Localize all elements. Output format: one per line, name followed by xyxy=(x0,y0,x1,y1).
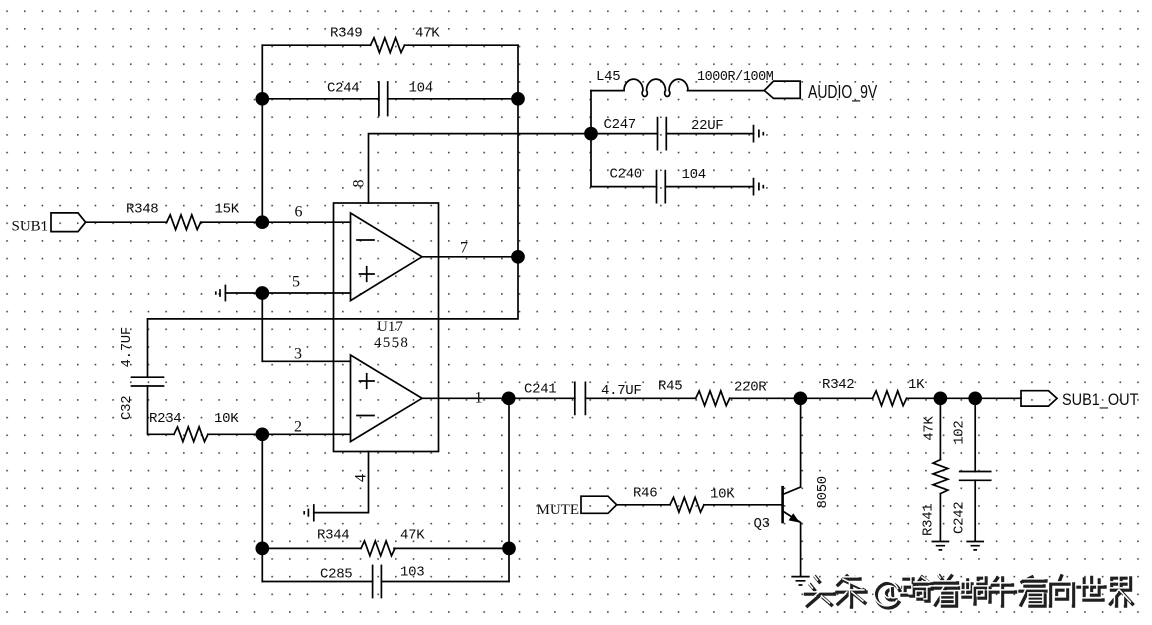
wire: pin7 output xyxy=(422,256,518,258)
wire: collector node to R342 xyxy=(800,397,872,399)
wire: C241 to R45 xyxy=(585,397,695,399)
wire: R234 to pin2 node xyxy=(208,433,262,435)
resistor R349 xyxy=(371,38,405,53)
wire: MUTE to R46 xyxy=(617,504,670,506)
svg-text:4558: 4558 xyxy=(374,335,409,351)
port MUTE xyxy=(581,496,617,513)
wire: branch vertical for L45/C247/C240 xyxy=(590,91,592,187)
node: junction C244 left xyxy=(256,93,268,105)
svg-text:Q3: Q3 xyxy=(754,516,770,532)
wire: pin1 output xyxy=(422,397,509,399)
svg-text:C285: C285 xyxy=(320,567,352,583)
node: pin2 junction xyxy=(256,428,268,440)
wire: to L45 xyxy=(591,90,624,92)
svg-text:103: 103 xyxy=(400,565,424,581)
svg-text:8050: 8050 xyxy=(815,476,831,508)
svg-text:47K: 47K xyxy=(921,416,937,441)
node: pin1 junction xyxy=(503,392,515,404)
node: C242 top junction xyxy=(969,392,981,404)
svg-text:C32: C32 xyxy=(119,396,135,420)
op-amp U17 triangle B (bottom) xyxy=(351,355,423,442)
wire: SUB1 to R348 xyxy=(86,221,167,223)
svg-text:C241: C241 xyxy=(524,382,556,398)
ground: R341 down-pointing xyxy=(932,542,948,550)
svg-text:R348: R348 xyxy=(126,202,158,218)
svg-text:102: 102 xyxy=(951,420,967,444)
wire: pin5 to pin3 vertical xyxy=(261,293,263,361)
wire: pin6 into op-amp xyxy=(262,221,350,223)
svg-text:1000R/100M: 1000R/100M xyxy=(697,70,774,85)
port SUB1_OUT xyxy=(1021,391,1057,406)
svg-text:104: 104 xyxy=(409,81,433,97)
wire: C242 bottom xyxy=(974,480,976,541)
wire: pin1 to C241 xyxy=(509,397,575,399)
wire: C242 top xyxy=(974,398,976,471)
op-amp A plus mark xyxy=(360,267,375,282)
svg-text:47K: 47K xyxy=(415,26,440,42)
watermark text white highlight layer xyxy=(803,574,1130,606)
capacitor C32 xyxy=(132,377,164,386)
node: R344 right junction xyxy=(503,542,515,554)
svg-text:R341: R341 xyxy=(920,504,936,536)
svg-text:R344: R344 xyxy=(317,528,349,544)
svg-text:R46: R46 xyxy=(633,486,657,502)
capacitor C242 xyxy=(960,472,991,481)
svg-text:1: 1 xyxy=(475,390,483,407)
svg-text:SUB1: SUB1 xyxy=(12,219,49,235)
wire: pin7 feedback down and left to C32 xyxy=(148,257,519,377)
svg-text:104: 104 xyxy=(682,167,706,183)
resistor R234 xyxy=(174,427,208,442)
ground: C247 right-pointing xyxy=(754,126,764,142)
svg-text:R349: R349 xyxy=(330,26,362,42)
transistor Q3 emitter xyxy=(783,511,801,576)
svg-text:5: 5 xyxy=(292,274,300,291)
wire: C32 down to R234 xyxy=(148,386,175,434)
ground: pin4 left-pointing xyxy=(304,505,314,521)
node: junction C244 right xyxy=(512,93,524,105)
node: R344 left junction xyxy=(256,542,268,554)
capacitor C285 xyxy=(373,566,382,598)
svg-text:10K: 10K xyxy=(214,411,239,427)
svg-text:10K: 10K xyxy=(710,487,735,503)
op-amp U17 box xyxy=(334,203,439,452)
transistor Q3 collector xyxy=(783,398,801,494)
resistor R341 (vertical) xyxy=(933,460,948,494)
capacitor C241 xyxy=(575,382,586,414)
wire: C247 row xyxy=(591,133,754,135)
svg-text:SUB1_OUT: SUB1_OUT xyxy=(1062,391,1139,409)
transistor Q3 base bar xyxy=(781,487,784,522)
svg-text:15K: 15K xyxy=(215,202,240,218)
wire: R344 row xyxy=(262,547,509,549)
wire: pin2 into op-amp xyxy=(262,433,350,435)
resistor R46 xyxy=(670,497,704,512)
wire: feedback top horizontal xyxy=(262,44,518,46)
wire: R342 to output nodes xyxy=(907,397,1021,399)
svg-text:C240: C240 xyxy=(610,167,642,183)
resistor R344 xyxy=(361,541,395,556)
svg-text:22UF: 22UF xyxy=(691,118,723,134)
wire: R348 to pin6 node xyxy=(201,221,263,223)
wire: C240 row xyxy=(591,186,754,188)
port AUDIO_9V xyxy=(764,81,800,98)
svg-text:2: 2 xyxy=(294,419,302,436)
node: junction at C247 branch xyxy=(585,128,597,140)
node: pin7 junction xyxy=(512,251,524,263)
op-amp B plus mark xyxy=(360,374,375,389)
svg-text:MUTE: MUTE xyxy=(537,502,580,518)
op-amp A minus mark xyxy=(357,239,374,241)
port SUB1 xyxy=(51,213,86,232)
svg-text:C247: C247 xyxy=(604,117,636,133)
wire: output rail right vertical xyxy=(517,45,519,257)
resistor R348 xyxy=(167,215,201,230)
resistor R45 xyxy=(696,391,730,406)
op-amp U17 triangle A (top) xyxy=(351,213,423,301)
op-amp B minus mark xyxy=(357,415,374,417)
wire: R341 top xyxy=(939,398,941,459)
capacitor C244 xyxy=(379,82,388,116)
node: collector junction xyxy=(794,392,806,404)
svg-text:AUDIO_9V: AUDIO_9V xyxy=(808,82,877,102)
wire: C285 row xyxy=(262,581,509,583)
transistor Q3 emitter arrow xyxy=(789,513,800,522)
inductor L45 xyxy=(624,79,688,96)
svg-text:6: 6 xyxy=(295,204,303,221)
wire: right rail C285 up to pin1 xyxy=(508,398,510,581)
ground: Q3 emitter down-pointing xyxy=(792,577,809,585)
node: R341 top junction xyxy=(934,392,946,404)
wire: R45 to collector node xyxy=(730,397,801,399)
svg-text:7: 7 xyxy=(460,240,468,257)
svg-text:1K: 1K xyxy=(908,377,925,393)
svg-text:L45: L45 xyxy=(596,69,620,85)
ground: pin5 left-pointing xyxy=(216,286,226,301)
svg-text:R234: R234 xyxy=(149,411,181,427)
wire: pin8 vertical and top horizontal to L45 branch xyxy=(369,134,592,203)
capacitor C240 xyxy=(657,171,666,203)
wire: feedback top rail left vertical xyxy=(261,45,263,222)
svg-text:R45: R45 xyxy=(658,379,682,395)
wire: R341 bottom xyxy=(939,494,941,541)
wire: ground to pin5 node xyxy=(225,292,262,294)
svg-text:47K: 47K xyxy=(400,528,425,544)
node: pin6 junction xyxy=(256,216,268,228)
wire: pin3 into op-amp xyxy=(262,360,350,362)
ground: C240 right-pointing xyxy=(754,179,764,195)
wire: R46 to Q3 base xyxy=(704,504,783,506)
svg-text:8: 8 xyxy=(351,180,368,188)
svg-text:C242: C242 xyxy=(951,502,967,534)
wire: L45 to AUDIO_9V port xyxy=(688,90,765,92)
wire: pin5 into op-amp xyxy=(262,292,350,294)
wire: C244 row xyxy=(262,98,518,100)
svg-text:U17: U17 xyxy=(377,319,403,335)
svg-text:C244: C244 xyxy=(327,81,359,97)
svg-text:4: 4 xyxy=(353,474,370,482)
capacitor C247 xyxy=(658,118,667,150)
wire: pin4 vertical and left to ground xyxy=(314,452,369,513)
resistor R342 xyxy=(873,391,907,406)
svg-text:4.7UF: 4.7UF xyxy=(119,327,135,368)
svg-text:3: 3 xyxy=(294,346,302,363)
svg-text:R342: R342 xyxy=(822,377,854,393)
node: pin5 junction xyxy=(256,287,268,299)
wire: left rail down from pin2 xyxy=(261,434,263,581)
svg-text:220R: 220R xyxy=(734,380,767,396)
ground: C242 down-pointing xyxy=(967,542,983,550)
svg-text:4.7UF: 4.7UF xyxy=(601,383,642,399)
watermark text 头条 @骑着蜗牛看向世界 dark layer xyxy=(806,576,1133,608)
